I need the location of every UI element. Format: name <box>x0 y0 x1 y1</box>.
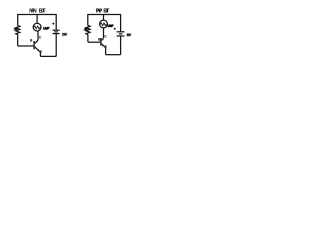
svg-text:12V: 12V <box>126 33 131 37</box>
svg-text:PNP: PNP <box>96 9 103 15</box>
svg-text:NPN: NPN <box>29 9 37 15</box>
wire: PNP right vertical upper <box>120 14 122 32</box>
lamp L1 filament <box>34 26 41 29</box>
label 12V (left battery) <box>62 33 68 37</box>
wire: PNP base wire <box>88 41 100 43</box>
label B (PNP) <box>98 37 101 41</box>
battery B1 plus sign <box>52 23 54 25</box>
battery B2 plates <box>117 31 125 33</box>
svg-text:B: B <box>30 38 33 42</box>
resistor R2 1M <box>86 26 90 35</box>
wire: NPN right vertical lower <box>55 34 57 57</box>
PNP circuit title <box>96 9 110 15</box>
label C (PNP) <box>104 34 107 38</box>
wire: PNP bottom rail <box>106 54 121 56</box>
lamp L2 circle <box>100 20 108 28</box>
label E <box>40 50 43 54</box>
battery B2 plus sign <box>114 28 116 30</box>
wire: PNP top rail <box>88 14 121 16</box>
lamp L1 circle <box>33 23 41 31</box>
wire: NPN top rail <box>18 14 57 16</box>
NPN circuit title <box>29 9 45 15</box>
wire: PNP left vertical lower <box>87 35 89 43</box>
label 1M (right) <box>84 28 87 30</box>
svg-text:LAMP: LAMP <box>107 24 114 28</box>
lamp L2 value label <box>107 24 114 28</box>
wire: PNP left vertical upper <box>87 14 89 26</box>
label B <box>30 38 33 42</box>
wire: NPN emitter vertical <box>39 52 41 56</box>
wire: NPN base wire <box>18 45 34 47</box>
label 1M (left) <box>14 28 17 30</box>
svg-text:B: B <box>98 37 101 41</box>
svg-text:BJT: BJT <box>39 9 46 15</box>
transistor Q1 collector diagonal <box>35 40 38 43</box>
wire: NPN lamp top stub <box>36 15 38 24</box>
lamp L1 value label <box>43 26 50 30</box>
transistor Q1 base bar <box>33 41 35 49</box>
transistor Q2 emitter diagonal with arrow (PNP: arrow toward bar) <box>102 44 106 48</box>
lamp L2 filament <box>100 23 107 26</box>
wire: PNP lamp top stub <box>103 15 105 21</box>
svg-text:12V: 12V <box>62 33 68 37</box>
svg-text:C: C <box>104 34 107 38</box>
wire: PNP right vertical lower <box>120 36 122 55</box>
transistor Q2 base bar <box>100 38 102 46</box>
svg-text:LAMP: LAMP <box>43 26 50 30</box>
svg-text:C: C <box>39 36 42 40</box>
wire: NPN collector vertical <box>37 31 39 40</box>
wire: NPN left vertical lower <box>17 35 19 46</box>
label E (PNP) <box>105 45 108 49</box>
transistor Q1 emitter diagonal with arrow <box>35 47 41 52</box>
wire: NPN right vertical upper <box>55 14 57 30</box>
wire: PNP emitter vertical <box>105 48 107 55</box>
wire: NPN left vertical upper <box>17 14 19 26</box>
battery B1 plates <box>53 29 60 31</box>
svg-text:BJT: BJT <box>103 9 109 15</box>
wire: NPN bottom rail <box>40 55 56 57</box>
label 12V (right battery) <box>126 33 131 37</box>
transistor Q2 collector diagonal <box>102 38 104 40</box>
label C <box>39 36 42 40</box>
wire: PNP collector vertical <box>103 28 105 39</box>
resistor R1 1M <box>16 26 20 35</box>
